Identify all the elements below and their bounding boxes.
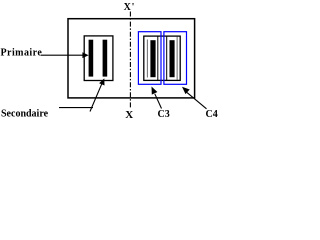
core outline (big rectangle) [68,19,195,98]
arrowhead Secondaire [99,78,104,85]
arrowhead C4 [182,87,190,94]
secondary winding bar 1 [150,40,155,77]
divider line left of secondary bar 1 [146,40,148,78]
primary winding window (left rect) [84,36,113,81]
capacitor C3 loop (blue rect) [138,32,161,85]
divider line right of secondary bar 1 [157,36,159,80]
svg-text:Primaire: Primaire [1,48,43,59]
svg-text:C3: C3 [158,109,170,120]
arrowhead Primaire [82,52,88,58]
secondary winding bar 2 [170,40,175,77]
leader line Secondaire (horizontal) [59,107,93,109]
svg-text:C4: C4 [206,109,218,120]
divider line right of secondary bar 2 [176,37,178,80]
leader line C4 [187,92,207,108]
capacitor C4 loop (blue rect) [164,32,187,85]
arrowhead C3 [152,87,158,95]
primary winding bar 1 [89,40,94,77]
svg-text:X: X [125,109,133,121]
leader line Secondaire (diagonal) [90,84,102,112]
divider line left of secondary bar 2 [166,36,168,80]
svg-text:Secondaire: Secondaire [1,108,49,119]
leader line Primaire [41,54,84,56]
secondary winding window (right outer rect) [144,36,180,80]
svg-text:X': X' [124,2,135,13]
leader line C3 [155,94,162,109]
axis X'X (dash-dot symmetry line) [129,12,131,109]
primary winding bar 2 [103,40,108,77]
